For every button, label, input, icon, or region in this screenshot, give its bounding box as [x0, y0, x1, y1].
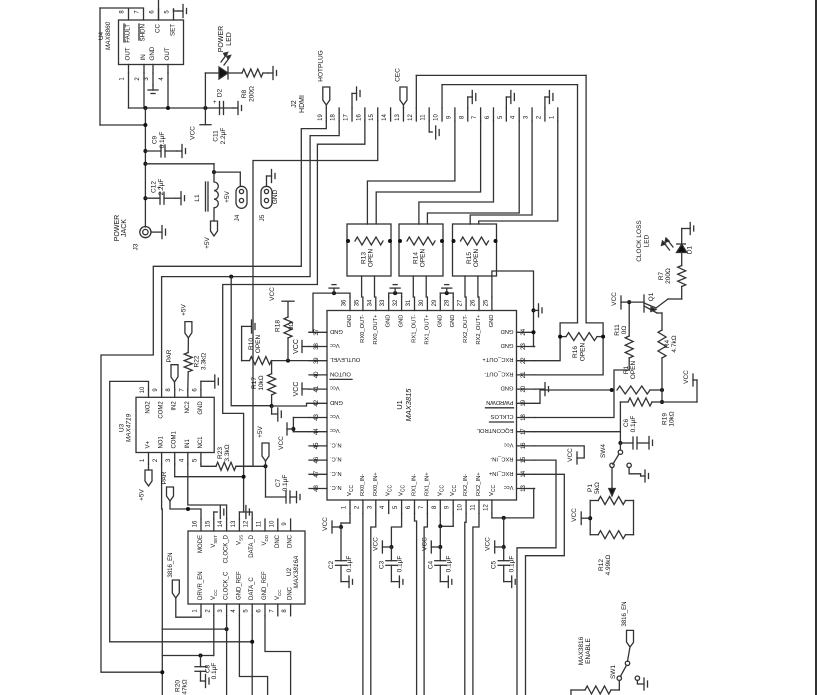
svg-text:SHDN: SHDN	[140, 24, 147, 42]
svg-text:RX0_IN+: RX0_IN+	[373, 472, 379, 496]
svg-text:D1: D1	[687, 245, 694, 254]
svg-text:18: 18	[521, 414, 527, 421]
svg-text:46: 46	[314, 456, 320, 463]
svg-text:200Ω: 200Ω	[665, 268, 672, 284]
svg-text:3816_EN: 3816_EN	[168, 552, 174, 577]
svg-text:Vcc: Vcc	[504, 484, 514, 490]
svg-text:Q1: Q1	[648, 292, 655, 301]
svg-text:CEC: CEC	[394, 68, 401, 82]
svg-text:MAX4719: MAX4719	[126, 413, 133, 442]
svg-text:29: 29	[432, 299, 438, 306]
svg-text:10: 10	[269, 520, 275, 527]
svg-text:RX2_OUT+: RX2_OUT+	[476, 314, 482, 345]
svg-text:+5V: +5V	[204, 236, 211, 248]
svg-text:3.3kΩ: 3.3kΩ	[201, 353, 208, 370]
svg-text:R16: R16	[572, 346, 579, 358]
svg-text:C4: C4	[427, 560, 434, 569]
svg-text:GND: GND	[272, 189, 279, 204]
svg-text:OUT: OUT	[164, 47, 171, 60]
svg-text:R20: R20	[175, 680, 182, 692]
svg-text:RX1_OUT+: RX1_OUT+	[424, 314, 430, 345]
svg-text:MODE: MODE	[198, 535, 204, 553]
svg-text:OPEN: OPEN	[580, 342, 587, 361]
svg-text:Vcc: Vcc	[330, 385, 340, 391]
svg-text:VCC: VCC	[278, 436, 285, 450]
svg-text:HDMI: HDMI	[299, 95, 306, 113]
svg-text:VCC: VCC	[372, 537, 379, 551]
svg-text:VSET: VSET	[211, 535, 218, 548]
svg-text:17: 17	[344, 114, 350, 121]
svg-text:NO1: NO1	[159, 436, 165, 449]
svg-text:Vcc: Vcc	[330, 413, 340, 419]
svg-text:R8: R8	[241, 89, 248, 98]
svg-text:J5: J5	[259, 214, 266, 221]
svg-text:OPEN: OPEN	[473, 248, 480, 267]
svg-text:IN1: IN1	[185, 439, 191, 449]
svg-text:32: 32	[393, 299, 399, 306]
svg-text:Vcc: Vcc	[330, 342, 340, 348]
svg-text:GND: GND	[330, 399, 343, 405]
svg-text:10: 10	[434, 114, 440, 121]
svg-text:5kΩ: 5kΩ	[594, 482, 601, 494]
svg-text:DRVR_EN: DRVR_EN	[198, 571, 204, 600]
svg-text:VCC: VCC	[190, 126, 197, 140]
svg-text:44: 44	[314, 428, 320, 435]
svg-text:RX1_IN+: RX1_IN+	[424, 472, 430, 496]
svg-text:SW4: SW4	[600, 444, 607, 458]
svg-text:OPEN: OPEN	[368, 248, 375, 267]
svg-text:RX2_IN-: RX2_IN-	[463, 474, 469, 496]
svg-text:RX2_IN+: RX2_IN+	[476, 472, 482, 496]
svg-text:OUT: OUT	[125, 47, 132, 60]
svg-text:4.7kΩ: 4.7kΩ	[671, 335, 678, 352]
svg-text:16: 16	[193, 520, 199, 527]
svg-text:VCC: VCC	[293, 382, 300, 397]
svg-text:FAULT: FAULT	[125, 24, 132, 43]
svg-text:200Ω: 200Ω	[249, 86, 256, 102]
svg-text:CLOCK_D: CLOCK_D	[224, 534, 230, 563]
svg-text:RXC_IN-: RXC_IN-	[490, 456, 513, 462]
svg-text:35: 35	[354, 299, 360, 306]
svg-text:R18: R18	[275, 320, 282, 332]
svg-text:GND: GND	[489, 315, 495, 328]
svg-text:RX1_OUT-: RX1_OUT-	[412, 314, 418, 342]
svg-text:+: +	[213, 100, 217, 106]
svg-text:14: 14	[218, 520, 224, 527]
svg-text:PAR: PAR	[166, 349, 173, 362]
svg-text:ENABLE: ENABLE	[585, 638, 592, 664]
svg-text:10: 10	[458, 504, 464, 511]
svg-text:15: 15	[369, 114, 375, 121]
svg-text:24: 24	[521, 328, 527, 335]
svg-text:P1: P1	[587, 484, 594, 492]
svg-text:GND: GND	[347, 315, 353, 328]
svg-text:GND: GND	[198, 401, 204, 415]
svg-text:C5: C5	[491, 560, 498, 569]
svg-text:3816_EN: 3816_EN	[622, 601, 628, 626]
svg-text:VCC: VCC	[269, 287, 276, 301]
svg-text:IN: IN	[140, 54, 147, 60]
svg-text:R12: R12	[598, 559, 605, 571]
svg-text:J4: J4	[234, 214, 241, 221]
svg-text:L1: L1	[194, 194, 201, 202]
svg-text:GND: GND	[149, 46, 156, 60]
svg-text:GND: GND	[330, 328, 343, 334]
svg-text:20: 20	[521, 385, 527, 392]
svg-text:14: 14	[382, 114, 388, 121]
svg-text:V+: V+	[146, 440, 152, 448]
svg-text:POWER: POWER	[114, 215, 121, 241]
svg-text:48: 48	[314, 485, 320, 492]
svg-text:RXC_OUT-: RXC_OUT-	[484, 370, 513, 376]
svg-text:R19: R19	[662, 413, 669, 425]
svg-text:0.1μF: 0.1μF	[346, 556, 353, 573]
svg-text:45: 45	[314, 442, 320, 449]
svg-text:C2: C2	[328, 560, 335, 569]
svg-text:IN2: IN2	[172, 401, 178, 411]
svg-text:NC2: NC2	[185, 401, 191, 414]
svg-text:19: 19	[318, 114, 324, 121]
svg-text:37: 37	[314, 328, 320, 335]
svg-text:U3: U3	[119, 423, 126, 432]
svg-text:N.C.: N.C.	[330, 456, 342, 462]
svg-text:15: 15	[205, 520, 211, 527]
svg-text:+5V: +5V	[139, 488, 146, 500]
svg-text:OUTLEVEL: OUTLEVEL	[329, 356, 360, 362]
svg-text:10kΩ: 10kΩ	[258, 375, 265, 390]
svg-text:4.99kΩ: 4.99kΩ	[605, 554, 612, 575]
svg-text:VCC: VCC	[322, 517, 329, 531]
svg-text:18: 18	[331, 114, 337, 121]
svg-text:11: 11	[471, 504, 477, 511]
svg-text:16: 16	[356, 114, 362, 121]
svg-text:R15: R15	[466, 252, 473, 264]
svg-text:41: 41	[314, 385, 320, 392]
svg-text:EQCONTROL: EQCONTROL	[476, 427, 513, 433]
svg-text:CLOCK LOSS: CLOCK LOSS	[636, 220, 643, 262]
svg-text:PWRDWN: PWRDWN	[486, 399, 513, 405]
svg-text:C12: C12	[151, 181, 158, 193]
svg-text:R11: R11	[614, 324, 621, 336]
svg-text:43: 43	[314, 414, 320, 421]
svg-text:+5V: +5V	[180, 303, 187, 315]
svg-text:R13: R13	[361, 252, 368, 264]
svg-text:SW1: SW1	[610, 665, 617, 679]
svg-text:R1: R1	[623, 365, 630, 374]
svg-text:12: 12	[483, 504, 489, 511]
svg-text:CC: CC	[155, 23, 162, 32]
svg-text:2.2μF: 2.2μF	[220, 128, 227, 145]
svg-text:0.1μF: 0.1μF	[282, 475, 289, 492]
svg-text:VCC: VCC	[571, 508, 578, 522]
svg-text:GND_REF: GND_REF	[236, 571, 242, 600]
svg-text:21: 21	[521, 371, 527, 378]
svg-text:R4: R4	[664, 339, 671, 348]
svg-text:+5V: +5V	[257, 425, 264, 437]
svg-text:C3: C3	[378, 560, 385, 569]
svg-text:0.1μF: 0.1μF	[509, 556, 516, 573]
svg-text:31: 31	[406, 299, 412, 306]
svg-text:GND_REF: GND_REF	[262, 571, 268, 600]
svg-text:13: 13	[231, 520, 237, 527]
svg-text:RX0_IN-: RX0_IN-	[360, 474, 366, 496]
svg-text:11: 11	[421, 114, 427, 121]
svg-text:RX0_OUT+: RX0_OUT+	[373, 314, 379, 345]
svg-text:U4: U4	[98, 31, 105, 40]
svg-text:RXC_IN+: RXC_IN+	[488, 470, 513, 476]
svg-text:36: 36	[342, 299, 348, 306]
svg-text:PAR: PAR	[161, 471, 168, 484]
svg-text:DNC: DNC	[288, 534, 294, 548]
svg-text:C7: C7	[275, 478, 282, 487]
svg-text:JACK: JACK	[121, 219, 128, 237]
svg-text:GND: GND	[399, 315, 405, 328]
svg-text:COM1: COM1	[172, 431, 178, 449]
svg-text:R14: R14	[413, 252, 420, 264]
svg-text:R17: R17	[251, 377, 258, 389]
svg-text:30: 30	[419, 299, 425, 306]
svg-text:0.1μF: 0.1μF	[445, 556, 452, 573]
svg-text:0.1μF: 0.1μF	[211, 663, 218, 680]
svg-text:DATA_D: DATA_D	[249, 534, 255, 557]
svg-text:10kΩ: 10kΩ	[669, 411, 676, 426]
svg-text:R23: R23	[217, 447, 224, 459]
svg-text:13: 13	[521, 485, 527, 492]
svg-text:U2: U2	[286, 567, 293, 576]
svg-text:GND: GND	[501, 342, 514, 348]
svg-text:N.C.: N.C.	[330, 470, 342, 476]
svg-text:GND: GND	[386, 315, 392, 328]
svg-text:SET: SET	[170, 24, 177, 36]
svg-text:GND: GND	[450, 315, 456, 328]
svg-text:0.1μF: 0.1μF	[396, 556, 403, 573]
svg-text:11: 11	[257, 520, 263, 527]
svg-text:HOTPLUG: HOTPLUG	[317, 50, 324, 81]
svg-text:MAX3816A: MAX3816A	[293, 556, 300, 589]
svg-text:0.1μF: 0.1μF	[630, 416, 637, 433]
svg-text:25: 25	[483, 299, 489, 306]
svg-text:0Ω: 0Ω	[621, 326, 628, 335]
svg-text:26: 26	[471, 299, 477, 306]
svg-text:16: 16	[521, 442, 527, 449]
svg-text:GND: GND	[437, 315, 443, 328]
svg-text:3.3kΩ: 3.3kΩ	[224, 444, 231, 461]
svg-text:14: 14	[521, 470, 527, 477]
svg-text:Vcc: Vcc	[504, 441, 514, 447]
svg-text:C9: C9	[152, 135, 159, 144]
svg-text:19: 19	[521, 399, 527, 406]
svg-text:RX1_IN-: RX1_IN-	[412, 474, 418, 496]
svg-text:47kΩ: 47kΩ	[182, 679, 189, 694]
svg-text:VDD: VDD	[262, 534, 269, 545]
svg-text:D2: D2	[217, 88, 224, 97]
svg-text:LED: LED	[644, 234, 651, 247]
svg-text:CLOCK_C: CLOCK_C	[224, 571, 230, 600]
svg-text:J2: J2	[291, 100, 298, 108]
svg-text:12: 12	[244, 520, 250, 527]
svg-text:C6: C6	[623, 418, 630, 427]
svg-text:MAX8860: MAX8860	[105, 21, 112, 50]
svg-text:GND: GND	[501, 328, 514, 334]
svg-text:13: 13	[395, 114, 401, 121]
svg-text:VCC: VCC	[683, 370, 690, 384]
svg-text:OPEN: OPEN	[255, 334, 262, 353]
svg-text:23: 23	[521, 343, 527, 350]
svg-text:33: 33	[380, 299, 386, 306]
svg-text:R10: R10	[248, 338, 255, 350]
svg-text:RXC_OUT+: RXC_OUT+	[482, 356, 514, 362]
svg-text:RX0_OUT-: RX0_OUT-	[360, 314, 366, 342]
svg-text:U1: U1	[395, 400, 404, 410]
svg-text:OPEN: OPEN	[420, 248, 427, 267]
svg-text:0.1μF: 0.1μF	[159, 132, 166, 149]
svg-text:LED: LED	[226, 32, 233, 46]
svg-text:NC1: NC1	[198, 436, 204, 449]
svg-text:NO2: NO2	[146, 401, 152, 414]
svg-text:VCC: VCC	[567, 448, 574, 462]
svg-text:GND: GND	[501, 385, 514, 391]
svg-text:39: 39	[314, 357, 320, 364]
svg-text:CLKLOS: CLKLOS	[490, 413, 513, 419]
svg-text:VCC: VCC	[421, 537, 428, 551]
svg-text:N.C.: N.C.	[330, 484, 342, 490]
svg-text:34: 34	[367, 299, 373, 306]
svg-text:VCC: VCC	[611, 292, 618, 306]
svg-text:27: 27	[458, 299, 464, 306]
svg-text:C11: C11	[213, 130, 220, 142]
svg-text:N.C.: N.C.	[330, 441, 342, 447]
svg-text:0Ω: 0Ω	[288, 322, 295, 331]
svg-text:VCC: VCC	[211, 589, 218, 600]
svg-text:VCC: VCC	[293, 339, 300, 354]
svg-text:J3: J3	[133, 243, 140, 250]
svg-text:12: 12	[408, 114, 414, 121]
svg-text:VSS: VSS	[236, 535, 243, 545]
svg-text:17: 17	[521, 428, 527, 435]
svg-text:R22: R22	[194, 355, 201, 367]
svg-text:MAX3815: MAX3815	[404, 388, 413, 422]
svg-text:28: 28	[445, 299, 451, 306]
svg-text:Vcc: Vcc	[330, 427, 340, 433]
svg-text:22: 22	[521, 357, 527, 364]
svg-text:COM2: COM2	[159, 401, 165, 419]
svg-text:VCC: VCC	[275, 589, 282, 600]
svg-text:2.2μF: 2.2μF	[158, 179, 165, 196]
svg-text:R7: R7	[658, 271, 665, 280]
svg-text:DNC: DNC	[275, 534, 281, 548]
svg-text:38: 38	[314, 343, 320, 350]
svg-text:OUTON: OUTON	[330, 370, 351, 376]
svg-text:+5V: +5V	[224, 190, 231, 202]
svg-text:10: 10	[140, 386, 146, 393]
svg-text:15: 15	[521, 456, 527, 463]
svg-text:RX2_OUT-: RX2_OUT-	[463, 314, 469, 342]
svg-text:POWER: POWER	[218, 26, 225, 52]
svg-text:47: 47	[314, 470, 320, 477]
svg-text:MAX3816: MAX3816	[578, 636, 585, 665]
svg-text:40: 40	[314, 371, 320, 378]
svg-text:42: 42	[314, 399, 320, 406]
svg-text:DATA_C: DATA_C	[249, 577, 255, 600]
svg-text:OPEN: OPEN	[630, 360, 637, 379]
svg-text:VCC: VCC	[485, 537, 492, 551]
